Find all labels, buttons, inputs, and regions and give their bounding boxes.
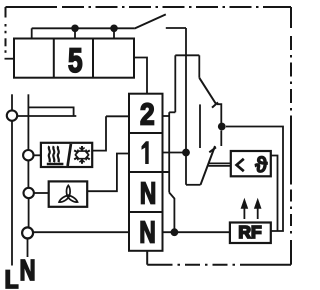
terminal divider N/N: [129, 211, 163, 213]
upper contact blade: [199, 78, 215, 104]
terminal divider 2/1: [129, 132, 163, 134]
fixed contact A: [220, 131, 222, 147]
L rail: [11, 121, 13, 266]
wire L circle to terminal 2 left (upper run): [106, 115, 129, 117]
upper contact seat: [212, 102, 218, 107]
enclosure border right: [290, 7, 292, 265]
fixed contact B: [199, 104, 201, 148]
terminal circle heat: [23, 150, 33, 160]
RF receiver box U3: [230, 223, 271, 244]
fan propeller: [58, 185, 78, 203]
thermostat wire right: [271, 156, 278, 232]
relay box 5 (3 compartments): [14, 39, 134, 78]
svg-text:RF: RF: [238, 222, 261, 242]
N rail down: [168, 112, 170, 192]
terminal circle fan: [24, 188, 34, 198]
separator slash: [68, 144, 71, 166]
svg-text:5: 5: [68, 43, 83, 80]
svg-text:N: N: [20, 255, 36, 286]
hop-over bump: [28, 107, 73, 116]
wire border to relay box K1: [5, 58, 15, 60]
relay actuator frame left edge: [174, 55, 176, 112]
junction dot top 2: [110, 25, 118, 33]
svg-text:ϑ: ϑ: [255, 153, 267, 177]
changeover common wire: [186, 184, 201, 186]
enclosure border left: [5, 7, 7, 53]
junction dot node RF: [218, 123, 226, 131]
wire circle1 bus: [17, 115, 76, 117]
N rail jog: [169, 193, 174, 230]
terminal 1 label: [142, 141, 149, 164]
wire seat to node: [217, 104, 221, 123]
wire circle2 to heat box: [34, 154, 41, 156]
main feed wire down: [185, 28, 187, 185]
N rail segments: [27, 94, 29, 150]
RF antenna arrow 1: [241, 199, 247, 219]
less-than symbol: [237, 159, 244, 171]
svg-text:N: N: [140, 175, 156, 210]
relay actuator frame top bar: [175, 54, 199, 56]
terminal strip box: [129, 94, 163, 251]
jog to N rail: [169, 111, 175, 113]
wire circle4 to N terminal: [34, 231, 129, 233]
terminal circle N: [22, 227, 33, 238]
wire fan box right riser: [87, 154, 129, 192]
L rail stub above circle1: [11, 94, 13, 110]
mechanical link double line: [209, 162, 231, 164]
junction dot N: [171, 228, 179, 236]
RF antenna arrow 2: [255, 199, 261, 219]
thermostat box U2: [231, 151, 271, 176]
wire terminal 1 to node: [163, 152, 187, 154]
enclosure border stub to N terminal: [146, 251, 148, 265]
switch S1 fixed side wire: [166, 27, 186, 29]
top bus wire: [32, 27, 135, 29]
heat/cool load box E1: [41, 143, 92, 167]
wire N terminal to RF: [163, 231, 230, 233]
switch S1 blade (open): [134, 14, 166, 28]
svg-text:N: N: [139, 214, 155, 249]
snowflake icon: [74, 146, 90, 164]
svg-text:L: L: [5, 266, 19, 290]
wire circle3 to fan box: [34, 192, 49, 194]
junction dot top 1: [71, 25, 79, 33]
changeover blade: [201, 146, 216, 185]
stub into compartment 2: [74, 28, 76, 38]
terminal 2 right stub: [163, 115, 170, 117]
fan load box M1: [49, 181, 87, 206]
terminal circle L: [7, 110, 17, 120]
stub into compartment 1: [31, 28, 33, 38]
enclosure border bottom: [147, 264, 291, 266]
relay actuator right edge: [198, 55, 200, 78]
node wire to RF loop: [226, 127, 283, 232]
junction dot node 1: [182, 149, 190, 157]
changeover blade tick: [209, 147, 216, 152]
compartment divider: [92, 39, 94, 78]
enclosure border top: [6, 6, 292, 8]
terminal divider 1/N: [129, 171, 169, 173]
svg-text:2: 2: [140, 98, 155, 132]
heating waves icon: [47, 146, 64, 164]
stub into compartment 3: [113, 28, 115, 38]
wire relay box to terminal 2: [134, 58, 147, 94]
wire heat box right riser: [92, 116, 106, 150]
compartment divider: [53, 39, 55, 78]
